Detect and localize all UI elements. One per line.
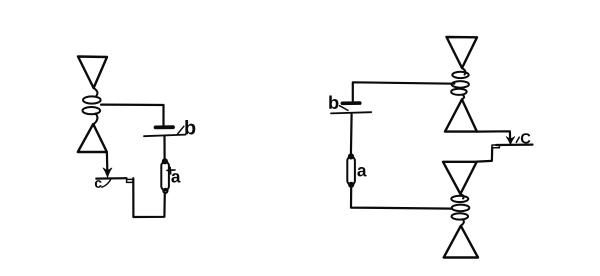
label a (right): [357, 167, 366, 176]
contact line at c (right): [496, 144, 532, 147]
wire: resistor a (right) bottom run to coil L3 tap: [351, 187, 452, 209]
wire: step down-left to V5 top edge: [477, 148, 493, 162]
battery b (right): long thin plate: [331, 112, 371, 113]
inductor coil L3 (right circuit lower, 3 loops): [451, 194, 469, 226]
wire: battery b (right) up and across to coil L2 tap: [353, 82, 455, 101]
wire: contact arm from V2 down to c: [106, 152, 109, 170]
contact step (anvil) at c (left): [127, 179, 133, 182]
label a (left) with small cross tick: [167, 167, 181, 182]
contact step (anvil) at c (right): [492, 145, 499, 148]
electrode triangle V1 (left circuit, top, inverted): [78, 57, 107, 89]
inductor coil L2 (right circuit upper, 3 loops): [451, 68, 469, 99]
label b (right) with leader tick: [329, 96, 348, 111]
battery b (left): long thin plate: [144, 135, 186, 137]
arrowhead at c (left): [103, 168, 112, 177]
electrode triangle V4 (right circuit, apex up, below L2): [445, 99, 477, 131]
wire: V4 base extension right and down to arrow at c: [477, 131, 510, 139]
inductor coil L1 (left circuit, 2 loops): [83, 88, 101, 124]
label c (left) with leader arc: [95, 178, 112, 188]
wire: resistor a bottom, down-left-up run to contact step: [133, 178, 165, 217]
resistor a (right): cylinder with end nubs: [347, 154, 355, 186]
arrowhead at c (right): [506, 137, 515, 145]
wire: battery b (right) down to resistor a (right): [350, 114, 353, 155]
resistor a (left): cylinder with end nubs: [161, 159, 169, 193]
electrode triangle V5 (right circuit, middle, inverted): [443, 162, 477, 194]
wire: battery b to resistor a (left): [163, 136, 165, 161]
electrode triangle V6 (right circuit, bottom, apex up): [444, 226, 478, 258]
battery b (right): short thick plate: [342, 101, 359, 105]
battery b (left): short thick plate: [156, 125, 174, 129]
label b (left) with leader tick: [177, 120, 195, 135]
wire: coil L1 tap to battery b top: [101, 105, 164, 127]
electrode triangle V2 (left circuit, lower, apex up): [78, 124, 107, 152]
electrode triangle V3 (right circuit, top, inverted): [447, 37, 478, 68]
contact line at c (left): [96, 177, 126, 180]
label C (right) with leader tick: [516, 133, 530, 143]
